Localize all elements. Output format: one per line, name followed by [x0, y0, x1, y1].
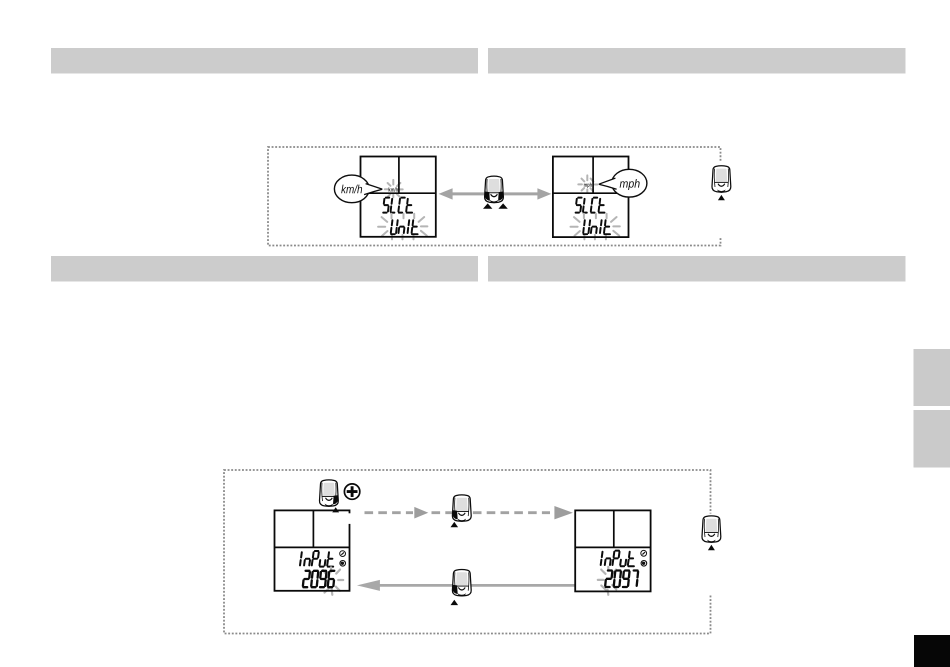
- LCD display 4 flash rays around digit 2: [598, 567, 617, 595]
- LCD display 2 text SLCt: [576, 198, 605, 213]
- LCD display 2 border: [553, 157, 629, 238]
- right triangle under middle button icon: [498, 203, 507, 208]
- LCD display 4 digits 2097: [605, 571, 638, 588]
- LCD display 2 body: [553, 157, 629, 238]
- LCD display 4 body: [575, 510, 650, 591]
- circled plus symbol: [344, 484, 359, 499]
- gray section header bar mid-right: [488, 256, 906, 282]
- gray section header bar top-right: [488, 48, 906, 74]
- dashed arrow end arrowhead: [554, 506, 573, 519]
- LCD display 4 border: [575, 510, 650, 591]
- LCD display 1 border: [361, 157, 436, 237]
- LCD display 3 body: [275, 510, 350, 590]
- LCD display 3 flash rays around digit 6: [323, 567, 343, 595]
- dashed arrow left segment: [365, 511, 414, 514]
- LCD display 1 text SLCt: [383, 198, 412, 213]
- LCD display 4 icon circle 2: [641, 561, 647, 567]
- LCD display 2 flash rays around mph indicator: [578, 175, 597, 192]
- LCD display 2 partition lines: [553, 157, 629, 194]
- LCD display 3 digits 2096: [303, 571, 334, 587]
- LCD display 2 mph segment indicator: [584, 183, 592, 188]
- speech bubble mph: [599, 169, 647, 197]
- double-headed arrow between displays: [439, 188, 552, 199]
- triangle under right-edge button icon (figure 2): [708, 545, 715, 550]
- gray side tab 1: [914, 349, 950, 406]
- LCD display 1 text Unit: [391, 220, 418, 234]
- gray section header bar top-left: [51, 48, 478, 74]
- dashed arrow right segment: [432, 511, 551, 514]
- LCD display 2 text Unit: [583, 220, 610, 234]
- LCD display 1 partition lines: [361, 157, 436, 194]
- LCD display 3 icon circle 2: [340, 561, 346, 567]
- triangle under solid-arrow button icon: [451, 600, 459, 605]
- LCD display 3 border: [275, 510, 350, 590]
- black corner tab: [914, 635, 950, 667]
- LCD display 1 km/h segment indicator: [389, 187, 398, 191]
- speech bubble km/h: [334, 175, 382, 203]
- triangle under right-edge button icon (figure 1): [718, 195, 725, 200]
- triangle under top-left button icon: [332, 507, 339, 512]
- button icon: left button press (on solid arrow): [452, 569, 471, 596]
- button icon: left button press (on dashed arrow): [452, 495, 471, 522]
- LCD display 4 partition lines: [575, 510, 650, 547]
- figure 2 dotted frame: [224, 470, 711, 634]
- button icon: press left or right button (figure 1 middle): [485, 176, 504, 203]
- LCD display 2 flash rays around Unit: [571, 214, 620, 240]
- solid return arrow: [357, 580, 575, 591]
- gray section header bar mid-left: [51, 256, 478, 282]
- white mask over dotted border behind right button icon (figure 2): [706, 514, 717, 595]
- left triangle under middle button icon: [483, 203, 492, 208]
- dashed arrow mid arrowhead: [414, 507, 428, 519]
- gray side tab 2: [914, 410, 950, 468]
- LCD display 1 flash rays around Unit: [378, 214, 427, 240]
- LCD display 4 icon circle 1: [641, 550, 647, 556]
- LCD display 3 partition lines: [275, 510, 350, 547]
- button icon on right frame edge (figure 2): [702, 516, 721, 543]
- button icon: right button press (figure 2 top-left): [319, 480, 338, 507]
- LCD display 4 text InPut: [601, 551, 634, 567]
- button icon on right frame edge (figure 1): [712, 166, 731, 193]
- triangle under dashed-arrow button icon: [451, 522, 459, 527]
- figure 1 dotted frame: [268, 147, 721, 246]
- LCD display 3 icon circle 1: [340, 551, 346, 557]
- white mask over dotted border behind right button icon (figure 1): [715, 163, 728, 237]
- LCD display 3 text InPut: [300, 551, 333, 567]
- LCD display 1 flash rays around km/h indicator: [385, 180, 403, 197]
- LCD display 1 body: [361, 157, 436, 237]
- LCD display 3 border gap for dashed arrow: [348, 513, 351, 524]
